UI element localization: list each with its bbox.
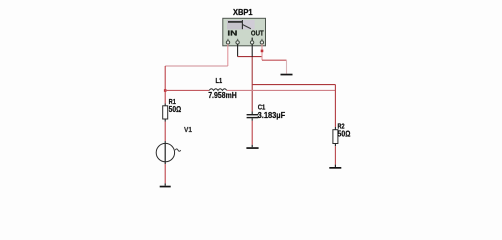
wire R2 top pin stub [334,127,336,130]
ground GND (C1) [246,147,258,149]
svg-text:3.183µF: 3.183µF [258,111,286,120]
terminal IN+ polarity mark [227,39,228,41]
wire input node vertical to R1 [164,66,166,104]
wire C1 to ground vertical [251,121,253,145]
terminal OUT+ polarity mark [252,38,253,41]
terminal OUT- pin circle [260,41,263,44]
ground GND (R2) [329,167,341,169]
terminal IN- pin circle [236,41,239,44]
ground GND (instrument) [281,74,293,76]
svg-text:IN: IN [227,31,237,38]
svg-text:OUT: OUT [251,31,264,38]
svg-text:50Ω: 50Ω [338,129,351,138]
AC source V1 circle body [156,143,174,161]
bode plotter XBP1 screen response curve [228,20,251,29]
wire IN+ stem vertical [227,44,229,66]
AC source V1 internal lead [164,143,166,161]
terminal IN- polarity mark [237,39,238,41]
terminal OUT- polarity mark [261,39,262,41]
svg-text:XBP1: XBP1 [233,8,253,17]
AC source V1 sine tilde mark [175,149,180,151]
wire L1 right lead horizontal to R2 branch [227,89,336,91]
terminal IN+ pin circle [226,41,229,44]
svg-text:V1: V1 [184,125,192,134]
svg-text:L1: L1 [216,78,223,85]
wire OUT- stem vertical [261,44,263,60]
wire OUT+ vertical down to output node and C1 [251,57,253,112]
wire ground net horizontal [262,59,287,61]
bode plotter XBP1 body [223,18,266,46]
capacitor C1 plates [247,114,259,118]
wire ground net vertical to GND bar [286,60,288,73]
resistor R1 body [163,106,168,119]
wire R1 to V1 vertical [164,122,166,142]
svg-text:7.958mH: 7.958mH [208,91,237,100]
wire L1 left lead horizontal [165,89,209,91]
wire R2 bottom pin stub [334,144,336,147]
wire R2 to ground vertical [334,146,336,164]
wire IN- stem vertical (black pin) [237,44,239,57]
wire IN- horizontal to ground net [238,56,262,58]
wire V1 bottom to ground [164,162,166,164]
wire V1 top pin stub [164,141,166,143]
wire output node upper horizontal to R2 branch [252,84,335,86]
wire C1 bottom pin stub [251,118,253,121]
terminal OUT+ pin circle [250,41,253,44]
node junction dot under OUT- terminal [261,50,264,53]
bode plotter XBP1 screen [227,20,255,29]
svg-text:50Ω: 50Ω [169,105,182,114]
wire R1 bottom pin stub [164,119,166,122]
wire R2 branch vertical [334,85,336,127]
wire R1 top pin stub [164,104,166,106]
wire OUT+ stem vertical (black pin) [251,44,253,57]
wire C1 top pin stub [251,112,253,115]
ground GND (source V1) [160,186,171,188]
node junction dot at input node / L1 tap [164,89,167,92]
resistor R2 body [333,130,338,144]
inductor L1 coil [209,89,227,91]
wire IN+ horizontal to input node [165,65,228,67]
